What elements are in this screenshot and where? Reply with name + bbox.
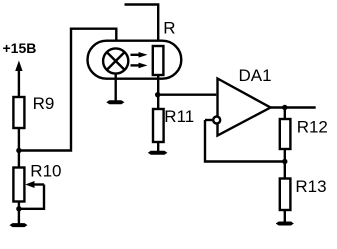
svg-text:R12: R12 <box>297 118 328 137</box>
+15V supply arrow <box>15 61 22 98</box>
node junction R10 bottom <box>16 206 21 211</box>
wire node to op-amp non-inverting input <box>158 93 217 95</box>
ground (under R11) <box>148 151 168 155</box>
wire R11 bottom to ground <box>157 142 159 151</box>
svg-text:R: R <box>163 18 175 37</box>
wire feedback from output divider to inverting input <box>205 120 285 162</box>
resistor R9 <box>13 97 24 128</box>
optocoupler enclosure (oval) <box>88 41 182 79</box>
wire R13 bottom to ground <box>284 210 286 223</box>
wire top stub to photoresistor <box>125 5 159 47</box>
svg-text:R11: R11 <box>164 107 194 126</box>
photoresistor R <box>153 46 164 75</box>
svg-text:R10: R10 <box>30 162 61 181</box>
svg-text:DA1: DA1 <box>239 66 272 85</box>
resistor R13 <box>280 179 291 211</box>
R10 wiper arrow <box>25 181 44 188</box>
node R / R11 / op-amp input <box>155 92 160 97</box>
lamp (circle with cross) <box>103 48 128 73</box>
wire lamp bottom to ground <box>114 74 116 101</box>
svg-text:R13: R13 <box>295 177 326 196</box>
ground (under lamp) <box>106 100 124 104</box>
svg-text:+15В: +15В <box>3 40 37 56</box>
ground (left) <box>10 223 28 227</box>
wire R12 bottom to node <box>284 149 286 179</box>
resistor R11 <box>153 109 164 142</box>
op-amp DA1 triangle <box>218 79 271 136</box>
svg-text:R9: R9 <box>33 94 55 113</box>
wire op-amp output <box>271 106 316 108</box>
wire R10 bottom to ground <box>18 202 20 225</box>
wire junction to lamp (up and over) <box>19 29 116 151</box>
light arrows <box>131 52 148 68</box>
ground (under R13) <box>276 222 294 226</box>
node junction R9/R10 <box>16 148 21 153</box>
wire wiper return <box>19 185 44 209</box>
resistor R12 <box>280 119 291 149</box>
wire output to R12 <box>284 108 286 120</box>
node output junction <box>282 105 287 110</box>
node R12/R13 junction <box>282 159 287 164</box>
wire photoresistor bottom to node <box>157 75 159 109</box>
resistor R10 (rheostat) <box>13 168 24 202</box>
wire R9 bottom to R10 top <box>18 128 20 168</box>
wire inverting input <box>205 119 212 121</box>
op-amp inverting input bubble <box>213 117 220 124</box>
